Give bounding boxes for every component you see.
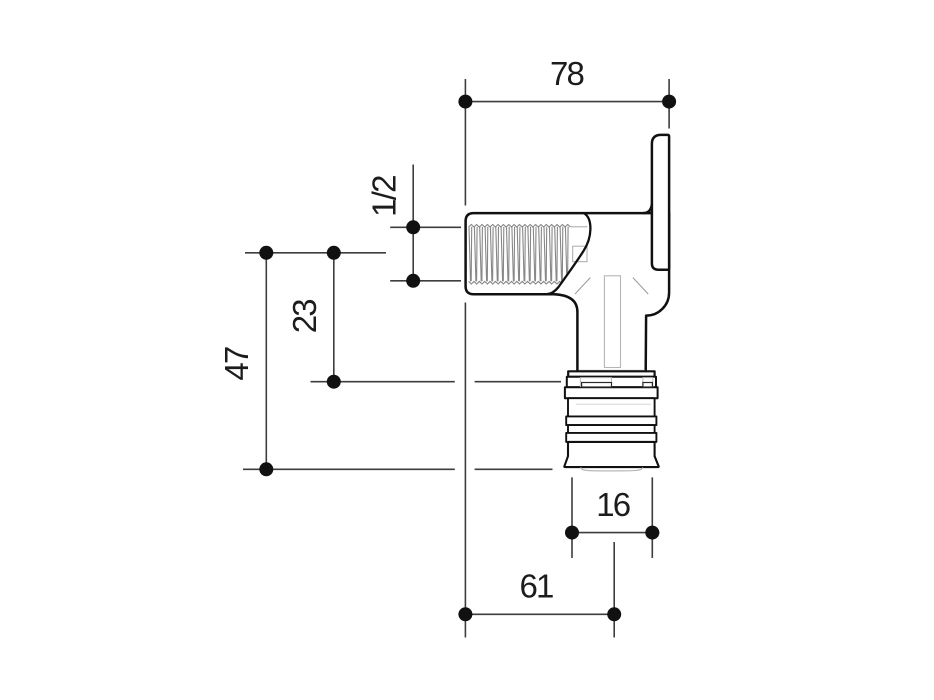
dim 78 dot right — [662, 95, 676, 109]
thread flank lines — [469, 227, 568, 282]
window guide left — [580, 378, 611, 387]
dim 16 dot left — [565, 526, 579, 540]
shared top reference line for 23 and 47 dims — [245, 252, 386, 254]
dim 1/2 dot upper — [406, 220, 420, 234]
sleeve housing upper ring — [567, 377, 656, 388]
sleeve bottom band with flare — [564, 442, 658, 467]
svg-text:16: 16 — [596, 486, 630, 523]
internal bore slot — [604, 276, 620, 368]
dim 23 bottom reference line (right of centerline) — [475, 381, 561, 383]
thread root extension line — [570, 226, 587, 228]
hidden edge above collar — [579, 369, 645, 371]
dim 1/2 lower tick line — [390, 280, 461, 282]
svg-text:23: 23 — [286, 300, 323, 334]
pipe end hidden edge — [581, 467, 643, 471]
extension line left (x=465.4, upper part above body) — [464, 79, 466, 206]
thread crest bottom zigzag — [469, 281, 571, 284]
dim 23 dot bottom — [327, 375, 341, 389]
dim 47 bottom reference line (left of centerline) — [243, 468, 455, 470]
inspection window right — [643, 383, 653, 388]
dim 61 dot left — [458, 607, 472, 621]
extension line right of 78 dim (x=669.1) — [668, 79, 670, 129]
window guide right — [643, 378, 653, 387]
collar plate — [568, 371, 654, 377]
svg-text:1/2: 1/2 — [366, 176, 403, 217]
extension line left (x=465.4, long lower part down to 61 dim) — [464, 303, 466, 638]
dim 47 dot top — [259, 246, 273, 260]
dim 16 dot right — [645, 526, 659, 540]
dim 1/2 upper tick line — [390, 226, 461, 228]
dim 61 right extension line (outlet centerline) — [613, 542, 615, 638]
dimension line 16 — [565, 532, 660, 534]
fitting body and outlet stem outline — [466, 213, 669, 371]
internal step rectangle — [573, 246, 587, 262]
dim 47 dot bottom — [259, 462, 273, 476]
svg-text:61: 61 — [519, 568, 553, 605]
sleeve middle band — [568, 425, 655, 433]
dim 1/2 dot lower — [406, 274, 420, 288]
dim 78 dot left — [458, 95, 472, 109]
svg-text:78: 78 — [550, 55, 584, 92]
sleeve housing lower ring — [565, 387, 658, 398]
hidden edge inside upper band — [576, 403, 651, 405]
dimension line 61 — [465, 613, 614, 615]
dim 61 dot right — [607, 607, 621, 621]
inspection window left — [582, 383, 612, 388]
dim 23 dot top — [327, 246, 341, 260]
dim 16 extension line left — [571, 477, 573, 558]
chamfer line right — [633, 278, 648, 295]
sleeve rib 1 — [566, 416, 656, 425]
dim 47 vertical line — [265, 253, 267, 469]
sleeve upper band — [568, 398, 655, 416]
dimension line 78 — [465, 101, 669, 103]
chamfer line left — [575, 278, 590, 295]
dim 47 bottom reference line (right of centerline) — [475, 468, 553, 470]
dim 1/2 vertical line — [412, 165, 414, 285]
svg-text:47: 47 — [218, 347, 255, 381]
fillet at body top / flange junction — [643, 204, 652, 213]
dim 23 bottom reference line (left of centerline) — [311, 381, 455, 383]
body transition S-curve — [546, 213, 591, 294]
dim 16 extension line right — [651, 477, 653, 558]
dim 23 vertical line — [333, 253, 335, 382]
sleeve rib 2 — [566, 433, 656, 442]
thread crest top zigzag — [469, 225, 571, 228]
